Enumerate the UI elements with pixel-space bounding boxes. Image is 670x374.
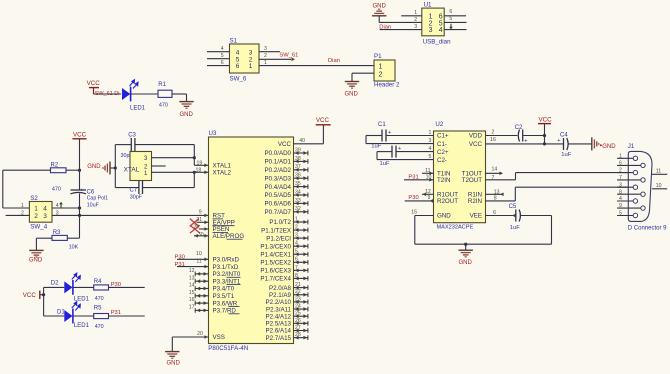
svg-text:R2OUT: R2OUT (437, 198, 458, 205)
svg-text:LED1: LED1 (74, 296, 90, 302)
svg-text:4: 4 (221, 46, 224, 52)
svg-text:P1.4/CEX1: P1.4/CEX1 (260, 251, 291, 258)
svg-text:C3: C3 (128, 132, 136, 138)
svg-text:2: 2 (264, 53, 267, 59)
svg-text:P0.7/AD7: P0.7/AD7 (265, 209, 292, 216)
svg-text:GND: GND (345, 91, 359, 97)
svg-text:GND: GND (29, 257, 43, 263)
svg-text:P1.0/T2: P1.0/T2 (269, 219, 291, 226)
svg-text:4: 4 (56, 203, 59, 209)
svg-text:P2.2/A10: P2.2/A10 (266, 299, 292, 306)
svg-text:Header 2: Header 2 (374, 81, 400, 88)
svg-text:20: 20 (197, 331, 203, 337)
svg-text:R2: R2 (51, 163, 59, 169)
svg-text:P0.3/AD3: P0.3/AD3 (265, 175, 292, 182)
svg-text:P3.0/RxD: P3.0/RxD (213, 257, 240, 264)
svg-text:38: 38 (295, 156, 301, 162)
svg-text:4: 4 (236, 49, 240, 56)
svg-text:P0.0/AD0: P0.0/AD0 (265, 150, 292, 157)
svg-text:3: 3 (429, 27, 433, 34)
svg-text:C4: C4 (560, 132, 568, 138)
svg-text:10: 10 (196, 251, 202, 257)
svg-text:7: 7 (295, 265, 298, 271)
svg-text:11: 11 (425, 168, 430, 174)
svg-text:37: 37 (295, 164, 301, 170)
svg-text:VCC: VCC (469, 141, 483, 148)
svg-text:P2.1/A9: P2.1/A9 (269, 292, 292, 299)
svg-text:13: 13 (189, 275, 195, 281)
svg-text:T2IN: T2IN (437, 177, 450, 184)
svg-text:Dian: Dian (379, 25, 391, 31)
svg-text:6: 6 (493, 210, 496, 216)
svg-text:6: 6 (221, 60, 224, 66)
svg-text:+: + (398, 146, 401, 152)
svg-text:P31: P31 (408, 175, 418, 181)
svg-text:C7: C7 (130, 188, 138, 194)
svg-text:P3.5/T1: P3.5/T1 (213, 293, 235, 300)
svg-text:P31: P31 (175, 262, 185, 268)
svg-text:6: 6 (236, 63, 240, 70)
svg-text:15: 15 (189, 290, 195, 296)
svg-text:P30: P30 (408, 195, 418, 201)
svg-text:P2.3/A11: P2.3/A11 (266, 306, 292, 313)
svg-text:15: 15 (411, 210, 417, 216)
svg-text:XTAL2: XTAL2 (213, 170, 232, 177)
svg-text:VCC: VCC (87, 80, 101, 87)
svg-text:P2.4/A12: P2.4/A12 (266, 313, 292, 320)
svg-text:C2: C2 (515, 125, 523, 131)
svg-text:GND: GND (167, 360, 181, 366)
svg-text:16: 16 (189, 297, 195, 303)
svg-text:P0.5/AD5: P0.5/AD5 (265, 192, 292, 199)
svg-text:1: 1 (379, 63, 383, 70)
svg-text:33: 33 (295, 198, 301, 204)
svg-text:P3.1/TxD: P3.1/TxD (213, 264, 239, 271)
svg-text:3: 3 (429, 138, 432, 144)
svg-text:2: 2 (379, 71, 383, 78)
svg-text:R3: R3 (53, 230, 61, 236)
svg-text:10: 10 (656, 183, 662, 189)
svg-text:VEE: VEE (470, 213, 482, 220)
svg-text:R5: R5 (94, 305, 102, 311)
svg-text:SW_61 Di: SW_61 Di (95, 91, 120, 97)
svg-text:P3.4/T0: P3.4/T0 (213, 286, 235, 293)
svg-text:2: 2 (21, 210, 24, 216)
svg-text:4: 4 (429, 146, 432, 152)
svg-text:16: 16 (490, 137, 496, 143)
svg-text:R2IN: R2IN (468, 198, 482, 205)
svg-text:1: 1 (295, 216, 298, 222)
svg-text:P2.7/A15: P2.7/A15 (266, 335, 292, 342)
svg-text:C2+: C2+ (437, 149, 449, 156)
svg-text:18: 18 (196, 167, 202, 173)
svg-text:XTAL: XTAL (124, 166, 140, 173)
svg-text:P1.3/CEX0: P1.3/CEX0 (260, 243, 291, 250)
svg-text:4: 4 (439, 27, 443, 34)
svg-text:1: 1 (414, 10, 417, 16)
svg-text:2: 2 (414, 17, 417, 23)
svg-text:P2.6/A14: P2.6/A14 (266, 328, 292, 335)
svg-text:12: 12 (425, 189, 431, 195)
svg-text:14: 14 (189, 283, 195, 289)
svg-text:470: 470 (52, 186, 61, 192)
svg-text:8: 8 (295, 273, 298, 279)
svg-text:P1.7/CEX4: P1.7/CEX4 (260, 276, 291, 283)
svg-text:6: 6 (449, 9, 452, 15)
svg-text:P2.0/A8: P2.0/A8 (269, 285, 292, 292)
svg-text:P0.4/AD4: P0.4/AD4 (265, 184, 292, 191)
svg-text:25: 25 (295, 311, 301, 317)
svg-text:GND: GND (87, 164, 101, 170)
svg-text:USB_dian: USB_dian (423, 39, 451, 46)
svg-text:VSS: VSS (213, 334, 225, 341)
svg-text:1: 1 (249, 63, 253, 70)
svg-text:470: 470 (95, 324, 104, 330)
svg-text:2: 2 (249, 56, 253, 63)
svg-text:5: 5 (295, 249, 298, 255)
svg-text:2: 2 (492, 130, 495, 136)
svg-text:R1: R1 (158, 82, 166, 88)
svg-text:P0.2/AD2: P0.2/AD2 (265, 167, 292, 174)
svg-text:U2: U2 (435, 121, 443, 128)
svg-text:GND: GND (373, 4, 387, 10)
svg-text:3: 3 (43, 213, 47, 220)
svg-text:SW_6: SW_6 (230, 76, 247, 83)
svg-text:U3: U3 (209, 130, 217, 137)
svg-text:+: + (388, 130, 391, 136)
svg-text:U1: U1 (424, 1, 432, 8)
svg-text:5: 5 (221, 53, 224, 59)
svg-text:10: 10 (426, 174, 432, 180)
svg-text:P31: P31 (111, 310, 121, 316)
svg-text:C1+: C1+ (437, 133, 449, 140)
svg-text:5: 5 (236, 56, 240, 63)
svg-text:P1: P1 (374, 53, 382, 60)
svg-text:3: 3 (619, 182, 622, 188)
svg-text:SW_61: SW_61 (279, 53, 298, 59)
svg-text:1: 1 (619, 153, 622, 159)
svg-text:1: 1 (21, 203, 24, 209)
svg-text:35: 35 (295, 181, 301, 187)
svg-text:10uF: 10uF (87, 202, 100, 208)
svg-text:10K: 10K (69, 245, 79, 251)
svg-text:Dian: Dian (328, 58, 340, 64)
svg-text:22: 22 (295, 289, 301, 295)
svg-text:GND: GND (180, 112, 194, 118)
svg-text:R4: R4 (94, 279, 102, 285)
svg-text:P2.5/A13: P2.5/A13 (266, 321, 292, 328)
svg-text:XTAL1: XTAL1 (213, 163, 232, 170)
svg-text:4: 4 (295, 241, 298, 247)
svg-text:VCC: VCC (278, 141, 292, 148)
svg-text:GND: GND (459, 260, 473, 266)
svg-text:J1: J1 (628, 143, 635, 150)
svg-text:P0.1/AD1: P0.1/AD1 (265, 159, 292, 166)
svg-text:D2: D2 (51, 281, 59, 287)
svg-text:3: 3 (414, 24, 417, 30)
svg-text:30pF: 30pF (130, 195, 143, 201)
svg-text:3: 3 (249, 49, 253, 56)
svg-text:1: 1 (34, 206, 38, 213)
svg-text:39: 39 (295, 147, 301, 153)
svg-text:6: 6 (295, 257, 298, 263)
svg-text:+: + (80, 188, 83, 194)
svg-text:14: 14 (492, 167, 498, 173)
svg-text:5: 5 (619, 211, 622, 217)
svg-text:8: 8 (494, 195, 497, 201)
svg-text:P1.5/CEX2: P1.5/CEX2 (260, 260, 291, 267)
svg-text:VCC: VCC (539, 116, 553, 123)
svg-text:P0.6/AD6: P0.6/AD6 (265, 201, 292, 208)
svg-text:1uF: 1uF (371, 144, 381, 150)
svg-text:D Connector 9: D Connector 9 (628, 225, 667, 231)
svg-text:6: 6 (619, 161, 622, 167)
svg-text:1uF: 1uF (510, 225, 520, 231)
svg-text:2: 2 (295, 224, 298, 230)
svg-text:28: 28 (295, 332, 301, 338)
svg-text:24: 24 (295, 303, 301, 309)
svg-text:5: 5 (429, 154, 432, 160)
svg-text:19: 19 (197, 160, 203, 166)
svg-text:29: 29 (193, 225, 199, 231)
svg-text:P30: P30 (111, 282, 121, 288)
svg-text:30: 30 (198, 232, 204, 238)
svg-text:36: 36 (295, 173, 301, 179)
svg-text:1: 1 (429, 130, 432, 136)
svg-text:VDD: VDD (469, 133, 483, 140)
svg-text:3: 3 (295, 233, 298, 239)
svg-text:470: 470 (95, 296, 104, 302)
svg-text:470: 470 (159, 103, 168, 109)
svg-text:LED1: LED1 (74, 323, 90, 329)
svg-text:11: 11 (656, 168, 661, 174)
svg-text:26: 26 (295, 318, 301, 324)
svg-text:VCC: VCC (316, 117, 330, 124)
svg-text:LED1: LED1 (130, 105, 146, 111)
svg-text:9: 9 (619, 203, 622, 209)
svg-text:23: 23 (295, 296, 301, 302)
svg-text:7: 7 (492, 175, 495, 181)
svg-text:4: 4 (619, 196, 622, 202)
svg-text:C1: C1 (378, 122, 386, 128)
svg-text:27: 27 (295, 325, 301, 331)
svg-text:5: 5 (449, 16, 452, 22)
svg-text:21: 21 (295, 282, 301, 288)
svg-text:P1.1/T2EX: P1.1/T2EX (261, 227, 291, 234)
svg-text:C2-: C2- (437, 157, 447, 164)
svg-text:P1.6/CEX3: P1.6/CEX3 (260, 268, 291, 275)
svg-text:SW_4: SW_4 (30, 224, 47, 231)
svg-text:D1: D1 (57, 310, 65, 316)
svg-text:VCC: VCC (73, 132, 87, 139)
svg-text:C5: C5 (509, 204, 517, 210)
svg-text:C6: C6 (87, 189, 95, 195)
svg-text:S1: S1 (230, 37, 238, 44)
svg-text:1uF: 1uF (380, 161, 390, 167)
svg-text:40: 40 (299, 138, 305, 144)
svg-text:1uF: 1uF (561, 152, 571, 158)
svg-text:P1.2/ECI: P1.2/ECI (266, 235, 291, 242)
svg-text:17: 17 (189, 305, 195, 311)
svg-text:7: 7 (619, 175, 622, 181)
svg-text:S2: S2 (30, 195, 38, 202)
svg-text:T2OUT: T2OUT (462, 177, 483, 184)
svg-text:32: 32 (295, 206, 301, 212)
svg-text:+: + (557, 138, 560, 144)
svg-text:GND: GND (437, 213, 451, 220)
svg-text:8: 8 (619, 189, 622, 195)
svg-text:Cap Pol1: Cap Pol1 (87, 196, 108, 202)
svg-text:12: 12 (189, 268, 195, 274)
svg-text:2: 2 (34, 213, 38, 220)
svg-text:34: 34 (295, 189, 301, 195)
svg-text:MAX232ACPE: MAX232ACPE (437, 224, 474, 230)
svg-text:4: 4 (43, 206, 47, 213)
svg-text:P30: P30 (175, 255, 185, 261)
svg-text:C1-: C1- (437, 141, 447, 148)
svg-text:2: 2 (619, 168, 622, 174)
svg-text:11: 11 (196, 259, 201, 265)
svg-text:9: 9 (428, 195, 431, 201)
svg-text:9: 9 (199, 209, 202, 215)
svg-text:GND: GND (602, 144, 616, 150)
svg-text:VCC: VCC (23, 292, 37, 299)
svg-text:P80C51FA-4N: P80C51FA-4N (208, 345, 248, 352)
